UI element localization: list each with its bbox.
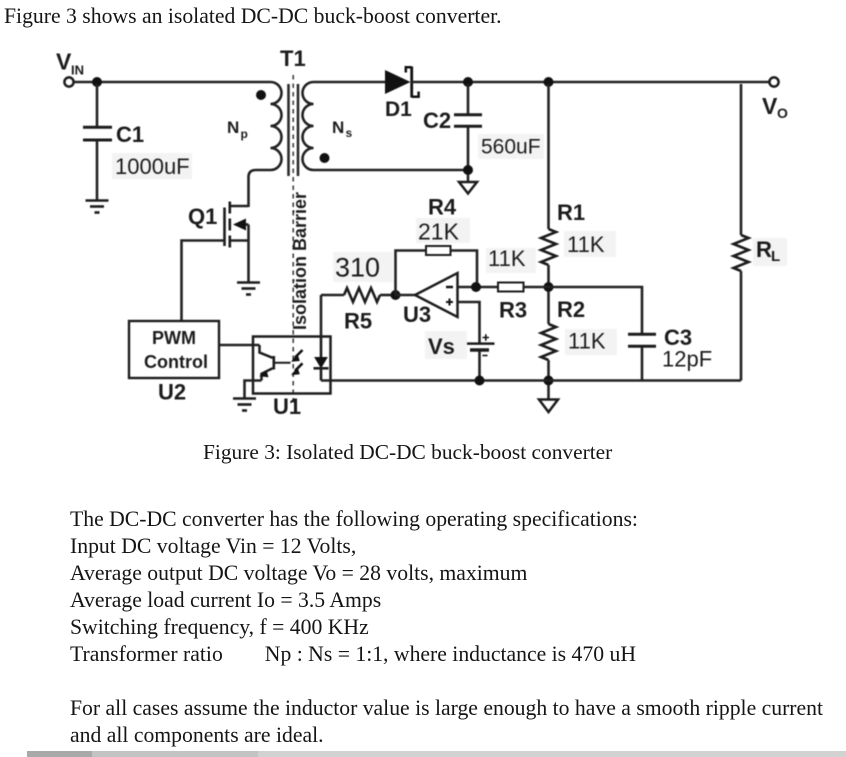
wire op-amp inverting input	[458, 286, 480, 289]
transformer T1 secondary dot	[320, 153, 330, 163]
ground (U1 emitter)	[233, 399, 256, 411]
ground (Q1 source)	[237, 283, 260, 295]
svg-text:C1: C1	[116, 122, 144, 147]
transformer T1 primary dot	[256, 90, 266, 100]
wire R1 to divider node	[547, 265, 550, 287]
svg-text:L: L	[771, 248, 780, 265]
svg-text:Isolation Barrier: Isolation Barrier	[290, 192, 310, 330]
resistor R2 11K	[541, 291, 617, 381]
transformer T1 primary label Np	[227, 118, 248, 141]
svg-text:C2: C2	[423, 108, 451, 133]
wire op-amp non-inverting input to Vs	[458, 302, 480, 343]
svg-text:N: N	[332, 118, 344, 137]
node inverting input / R3	[471, 282, 481, 292]
svg-text:R1: R1	[557, 200, 585, 225]
node C2 top	[463, 77, 473, 87]
ground arrow (divider return)	[539, 385, 558, 412]
isolation barrier dashed line	[292, 75, 294, 403]
wire T1 secondary top to D1 anode	[314, 81, 386, 84]
terminal VIN	[56, 49, 84, 87]
node feedback divider	[544, 282, 554, 292]
svg-text:11K: 11K	[567, 232, 605, 257]
svg-text:PWM: PWM	[152, 328, 196, 348]
op-amp U3	[396, 273, 458, 327]
optocoupler U1 light arrows	[291, 350, 303, 375]
svg-text:21K: 21K	[418, 219, 460, 245]
node C2 bottom	[463, 165, 473, 175]
specifications paragraph	[70, 506, 638, 668]
svg-text:11K: 11K	[488, 246, 526, 271]
capacitor C2	[423, 84, 544, 166]
wire U1 emitter to ground	[245, 381, 262, 399]
bottom window edge bar	[27, 751, 92, 757]
transistor Q1 (N-MOSFET)	[188, 202, 249, 283]
optocoupler U1 LED	[314, 337, 329, 381]
node op-amp output	[391, 290, 401, 300]
svg-text:p: p	[241, 127, 248, 141]
svg-text:Control: Control	[144, 352, 208, 372]
wire Q1 gate to PWM control	[182, 241, 225, 322]
node VIN/C1 junction	[92, 77, 102, 87]
svg-text:s: s	[346, 126, 353, 140]
transformer T1 secondary winding	[303, 82, 314, 170]
svg-text:R4: R4	[428, 195, 457, 220]
svg-text:U1: U1	[273, 394, 301, 419]
transformer T1 core	[289, 84, 299, 176]
svg-text:O: O	[777, 105, 788, 121]
svg-text:12pF: 12pF	[662, 347, 712, 372]
transformer T1 primary winding	[249, 82, 282, 207]
wire bottom rail	[321, 379, 741, 382]
figure caption	[203, 440, 612, 465]
capacitor C1	[83, 84, 192, 200]
svg-text:IN: IN	[71, 63, 84, 78]
optocoupler U1 box	[253, 337, 331, 394]
capacitor C3 12pF	[628, 325, 712, 381]
node R1 top	[544, 77, 554, 87]
document heading line	[4, 4, 502, 29]
terminal Vo	[762, 77, 788, 121]
optocoupler U1 phototransistor	[259, 345, 290, 381]
resistor R5 310	[321, 252, 395, 334]
svg-text:Vs: Vs	[428, 334, 455, 359]
svg-text:U2: U2	[158, 380, 186, 405]
svg-text:1000uF: 1000uF	[115, 154, 190, 179]
svg-text:T1: T1	[280, 46, 306, 71]
svg-text:U3: U3	[403, 302, 431, 327]
svg-text:R2: R2	[557, 297, 585, 322]
transformer T1 secondary label Ns	[332, 118, 353, 140]
svg-text:560uF: 560uF	[481, 136, 541, 159]
svg-text:V: V	[56, 49, 72, 75]
wire R5 to U1 LED	[320, 295, 323, 337]
svg-text:V: V	[762, 93, 778, 119]
resistor R3 11K	[479, 246, 549, 323]
PWM control block U2	[129, 321, 219, 405]
node R2 bottom	[544, 376, 554, 386]
wire VIN to T1 primary top	[74, 81, 271, 84]
svg-text:N: N	[227, 118, 239, 137]
svg-text:310: 310	[335, 253, 380, 283]
wire output top rail	[411, 81, 770, 84]
wire T1 secondary bottom to C2 bottom	[314, 169, 469, 172]
wire PWM control to U1	[219, 344, 260, 347]
svg-text:R3: R3	[499, 298, 527, 323]
resistor R1 11K	[541, 200, 616, 265]
svg-text:R5: R5	[344, 309, 372, 334]
svg-text:11K: 11K	[568, 329, 606, 354]
node Vs return on bottom rail	[475, 376, 485, 386]
svg-text:D1: D1	[385, 98, 412, 121]
svg-text:R: R	[756, 237, 772, 262]
resistor R4 21K feedback	[396, 195, 478, 296]
wire divider node to C3	[549, 287, 643, 333]
ground (C1)	[86, 201, 109, 213]
diode D1 (schottky)	[385, 67, 419, 122]
wire R1 branch	[547, 84, 550, 229]
ground arrow (secondary return)	[459, 174, 477, 194]
resistor RL	[734, 84, 788, 381]
svg-text:Q1: Q1	[188, 204, 217, 229]
closing paragraph	[70, 695, 823, 749]
voltage source Vs	[425, 331, 495, 381]
